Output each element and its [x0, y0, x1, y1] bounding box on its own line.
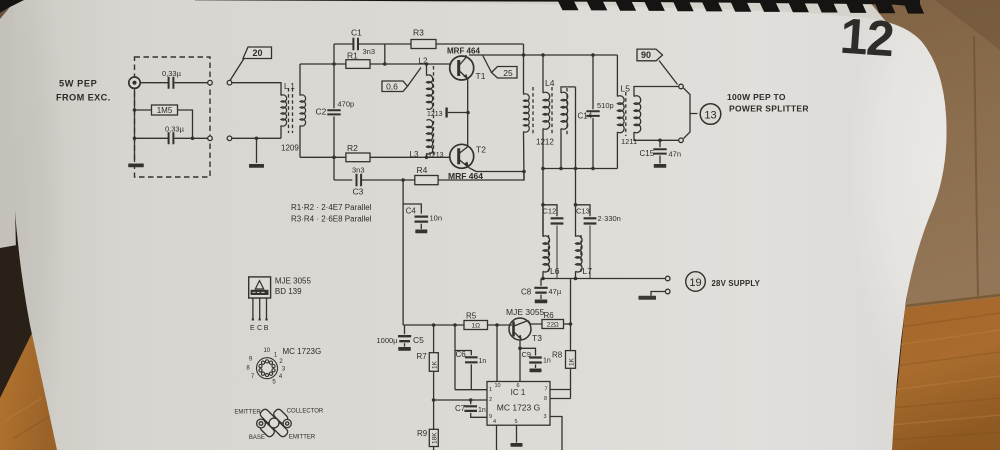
svg-text:1n: 1n	[543, 358, 551, 365]
wire C-0.33u to terminal	[175, 82, 208, 84]
wire to resistor 1M5	[135, 109, 153, 111]
svg-text:R4: R4	[417, 165, 428, 175]
wire L3 bottom lead	[426, 153, 428, 157]
wire tag25 pointer	[483, 55, 492, 73]
svg-text:90: 90	[641, 50, 651, 60]
svg-text:1213: 1213	[428, 152, 444, 159]
wire L1 secondary top to R1 rail	[299, 64, 301, 96]
package MJE3055/BD139 outline	[249, 277, 271, 321]
svg-text:L2: L2	[419, 57, 428, 66]
wire supply rail	[543, 278, 665, 280]
resistor R8	[570, 324, 572, 351]
svg-text:BASE: BASE	[249, 435, 265, 441]
wood floor right	[890, 297, 1000, 450]
svg-text:7: 7	[544, 387, 547, 393]
svg-text:1211: 1211	[621, 137, 637, 146]
svg-text:C5: C5	[413, 335, 424, 345]
resistor R4	[415, 176, 438, 185]
node C9	[518, 347, 522, 351]
left background strip	[0, 0, 16, 255]
furniture crease line	[974, 36, 978, 300]
wire supply to R6 column	[570, 279, 572, 325]
ground (L1)	[249, 164, 264, 168]
wire node to C-0.33u bottom	[135, 137, 169, 139]
svg-text:18K: 18K	[432, 432, 439, 444]
transformer L4 core	[533, 87, 552, 135]
svg-text:13: 13	[704, 109, 716, 121]
svg-text:COLLECTOR: COLLECTOR	[287, 409, 324, 415]
tag 90 flag	[637, 49, 663, 61]
svg-text:R9: R9	[417, 429, 428, 438]
svg-text:0,33µ: 0,33µ	[162, 69, 182, 78]
svg-text:EMITTER: EMITTER	[289, 435, 316, 441]
wood floor bottom-left	[0, 331, 58, 450]
node 1M5/lower rail	[191, 137, 195, 141]
right furniture background	[868, 0, 1000, 309]
inductor L3	[427, 120, 433, 154]
svg-text:T2: T2	[476, 145, 486, 155]
page right edge highlight	[845, 0, 1000, 425]
wire tag90 pointer	[659, 61, 678, 85]
svg-text:C3: C3	[353, 187, 364, 197]
wire R1 rail left	[300, 63, 346, 65]
svg-text:9: 9	[489, 414, 492, 420]
node T1 collector / feedback	[522, 53, 526, 57]
svg-text:510p: 510p	[597, 101, 614, 110]
svg-text:POWER SPLITTER: POWER SPLITTER	[729, 104, 809, 114]
output terminal (top)	[679, 84, 684, 89]
svg-text:L6: L6	[550, 266, 560, 276]
svg-text:0,6: 0,6	[386, 81, 398, 91]
dashed shield box around input network	[135, 57, 211, 177]
svg-text:3: 3	[543, 414, 546, 420]
wire T1 emitter to T2 collector	[467, 79, 469, 147]
tag 25 flag	[492, 67, 518, 79]
wire supply return	[651, 292, 665, 296]
wire T1 collector rail	[469, 54, 617, 56]
svg-text:2·330n: 2·330n	[598, 214, 621, 223]
wire tap to T1/T2 junction	[448, 112, 468, 114]
backing behind binder teeth	[0, 0, 1000, 40]
svg-text:R1·R2 · 2·4E7 Parallel: R1·R2 · 2·4E7 Parallel	[291, 203, 372, 212]
wire R2 rail down to C3 rail	[333, 157, 335, 180]
IC U1 MC1723G box	[487, 382, 550, 426]
supply terminal (return)	[665, 289, 670, 294]
svg-text:3n3: 3n3	[363, 47, 376, 56]
node rail/C14	[591, 53, 595, 57]
package MC1723G pinout circle	[257, 358, 278, 379]
wire C4 to ground	[420, 224, 422, 229]
wire R2 rail left	[300, 156, 346, 158]
wire R1 rail to T1 base	[370, 63, 450, 65]
svg-text:MRF 464: MRF 464	[448, 171, 483, 181]
svg-text:1K: 1K	[569, 357, 576, 366]
node C12	[541, 203, 545, 207]
output terminal (bottom)	[679, 138, 684, 143]
terminal on shield box (bottom)	[208, 136, 213, 141]
wire R6 to column	[564, 323, 571, 325]
wire pin3	[550, 417, 562, 450]
svg-text:10: 10	[263, 348, 270, 354]
svg-text:1212: 1212	[536, 138, 554, 147]
svg-text:EMITTER: EMITTER	[234, 410, 261, 416]
wire top rail to C1	[334, 43, 353, 45]
node L6/rail	[541, 277, 545, 281]
node C2 bottom	[332, 156, 336, 160]
capacitor C8	[540, 279, 542, 286]
svg-text:C6: C6	[456, 350, 467, 359]
svg-text:20: 20	[252, 48, 262, 58]
circle 13	[700, 104, 721, 125]
node C13	[574, 203, 578, 207]
svg-text:47µ: 47µ	[549, 287, 562, 296]
svg-text:C: C	[257, 325, 262, 332]
svg-text:MC 1723 G: MC 1723 G	[497, 403, 540, 413]
transformer L1 secondary winding	[300, 95, 306, 126]
svg-text:C8: C8	[521, 288, 532, 297]
svg-text:L 1: L 1	[284, 82, 295, 91]
node L7/rail	[574, 277, 578, 281]
transistor T1 MRF464	[450, 55, 474, 80]
node input/1M5	[133, 108, 137, 112]
svg-text:1213: 1213	[427, 111, 443, 118]
ground (C15)	[654, 164, 667, 168]
svg-text:25: 25	[503, 68, 513, 78]
svg-text:10: 10	[495, 383, 501, 389]
wire pin7	[550, 389, 571, 391]
dark object bottom-left	[0, 245, 33, 400]
wire R3 to collector column	[436, 43, 524, 45]
svg-text:8: 8	[544, 396, 547, 402]
capacitor C14	[592, 55, 594, 109]
wire rail B	[543, 168, 617, 170]
wire main vertical below R4 rail	[402, 180, 404, 325]
terminal on shield box (top)	[208, 80, 213, 85]
ground (C5)	[398, 347, 411, 351]
svg-text:5W PEP: 5W PEP	[59, 79, 97, 89]
resistor R6	[542, 320, 564, 329]
svg-text:C1: C1	[351, 28, 362, 38]
svg-text:C12: C12	[543, 207, 557, 216]
wire L4 w1 bottom to emitter rail	[523, 132, 526, 181]
tap bar	[445, 108, 447, 118]
output bracket to 13	[684, 88, 698, 139]
node C2 top	[332, 62, 336, 66]
svg-text:2: 2	[489, 397, 492, 403]
transformer L5 secondary	[634, 96, 641, 133]
svg-text:0,33µ: 0,33µ	[165, 125, 185, 134]
wire tag0,6 pointer	[408, 68, 422, 87]
wire C3 rail left	[334, 179, 352, 181]
supply return end bar (ground)	[639, 296, 657, 300]
transformer L1 primary winding	[281, 95, 287, 126]
wire pin2 line	[434, 399, 487, 401]
wire C1 to R3	[359, 43, 411, 45]
node rail/L4w2	[541, 53, 545, 57]
svg-text:L4: L4	[545, 78, 555, 88]
svg-text:L5: L5	[621, 84, 631, 94]
wire to terminal bottom	[175, 137, 208, 139]
wire C2 bottom lead	[333, 116, 335, 157]
node C6/rail	[453, 323, 457, 327]
svg-text:MJE 3055: MJE 3055	[275, 277, 312, 286]
choke L7	[575, 87, 577, 237]
capacitor C5 1000u	[404, 325, 406, 334]
svg-text:B: B	[264, 325, 269, 332]
choke L6	[542, 205, 544, 237]
capacitor 0.33u (top)	[169, 77, 174, 89]
svg-text:1000µ: 1000µ	[376, 336, 398, 345]
wire pin1	[455, 389, 487, 391]
svg-text:5: 5	[515, 419, 518, 425]
svg-text:R3: R3	[413, 28, 424, 38]
wire R7 to R9	[433, 371, 435, 429]
svg-text:1K: 1K	[432, 360, 439, 369]
capacitor 0.33u (bottom)	[169, 132, 174, 144]
ground (pin5)	[511, 443, 523, 447]
terminal L1 input (top)	[227, 80, 232, 85]
svg-text:1M5: 1M5	[157, 106, 173, 115]
svg-text:470p: 470p	[338, 100, 355, 109]
wire pin5	[516, 425, 518, 442]
wire L1 secondary bottom to R2 rail	[299, 126, 301, 158]
node C4 top	[401, 178, 405, 182]
transformer L4 winding 1	[524, 94, 530, 132]
node L3 bottom	[425, 156, 429, 160]
wire feedback drop	[384, 44, 386, 64]
wire pin4	[496, 425, 498, 450]
svg-text:R7: R7	[417, 352, 428, 361]
wire R2 rail to T2 base	[370, 156, 450, 158]
wire R4 to T2 emitter jog	[438, 172, 524, 181]
ground (C8)	[535, 300, 548, 304]
transistor T2 MRF464	[450, 144, 476, 171]
svg-text:C2: C2	[316, 107, 327, 117]
capacitor C1	[353, 38, 358, 50]
circle 19	[686, 272, 706, 292]
svg-text:C13: C13	[576, 207, 590, 216]
svg-text:BD 139: BD 139	[275, 287, 302, 296]
wire L1 ground stub	[256, 138, 258, 163]
binder corner wedge top-left	[0, 0, 24, 13]
svg-text:1n: 1n	[478, 407, 486, 414]
node C15	[658, 139, 662, 143]
transformer L1 core	[289, 88, 293, 133]
wire R5 rail	[403, 324, 464, 326]
node R6/R8	[569, 322, 573, 326]
node railB/L7col	[574, 167, 578, 171]
wire C2 top lead	[333, 64, 335, 108]
transformer L4 core w3	[566, 88, 568, 135]
wire terminal to L1 primary bottom	[232, 137, 281, 139]
svg-text:C15: C15	[640, 149, 655, 158]
wire pin8	[550, 398, 571, 400]
capacitor C4	[415, 217, 429, 222]
ground (input)	[128, 164, 144, 168]
node L2 top	[425, 62, 429, 66]
resistor R3	[411, 40, 436, 49]
node railB/C14	[591, 167, 595, 171]
svg-text:12: 12	[838, 8, 894, 68]
svg-text:C14: C14	[578, 112, 593, 121]
svg-text:T1: T1	[476, 71, 486, 81]
transformer L5 core	[625, 92, 627, 136]
wire 1M5 to lower rail	[177, 110, 193, 138]
svg-text:1Ω: 1Ω	[472, 322, 481, 329]
svg-text:3n3: 3n3	[352, 166, 365, 175]
svg-text:R5: R5	[466, 312, 477, 321]
wire terminal to L1 primary top	[232, 83, 281, 96]
IC pin numbers	[489, 383, 548, 425]
node R7/R9/pin2	[432, 398, 436, 402]
wire pin7-8 jumper	[570, 390, 572, 399]
resistor R2	[346, 153, 370, 162]
capacitor C7	[470, 400, 472, 404]
node interstage tap	[466, 111, 470, 115]
input coax connector	[129, 77, 140, 88]
wire top rail corner into L4	[523, 44, 525, 95]
svg-text:19: 19	[689, 277, 701, 289]
transformer L2/L3 core	[433, 66, 435, 157]
wire T3 emitter down to IC pin6	[519, 340, 521, 382]
svg-text:47n: 47n	[669, 150, 682, 159]
svg-text:E: E	[250, 325, 255, 332]
wire input vertical	[134, 88, 136, 162]
resistor R9	[429, 429, 438, 446]
svg-text:L7: L7	[583, 266, 593, 276]
svg-text:1n: 1n	[479, 358, 487, 365]
wire tag20 pointer	[230, 59, 244, 81]
terminal L1 input (bottom)	[227, 136, 232, 141]
wire connector to C-0.33u top	[140, 82, 168, 84]
svg-text:10n: 10n	[430, 214, 443, 223]
tag 20 flag	[243, 47, 272, 59]
node feedback/base T1	[383, 62, 387, 66]
svg-text:1: 1	[489, 387, 492, 393]
svg-text:MJE 3055: MJE 3055	[506, 307, 545, 317]
resistor R1	[346, 60, 370, 69]
wire C3 to R4	[362, 179, 415, 181]
svg-text:R6: R6	[544, 311, 555, 320]
wire L1 primary bottom	[280, 126, 282, 139]
svg-text:C4: C4	[406, 207, 417, 216]
node R7 top	[432, 323, 436, 327]
node input/lower cap	[133, 137, 137, 141]
resistor 1M5	[152, 105, 178, 115]
node railB/L4w2	[541, 167, 545, 171]
svg-text:4: 4	[493, 419, 496, 425]
svg-text:1209: 1209	[281, 144, 299, 153]
wire C4 branch	[403, 204, 421, 214]
svg-text:IC 1: IC 1	[511, 388, 526, 397]
node L1 ground stub	[255, 137, 259, 141]
tag 0,6 flag	[382, 81, 408, 92]
resistor R5	[464, 321, 488, 330]
wire T2 emitter line	[476, 171, 524, 173]
svg-text:6: 6	[517, 383, 520, 389]
svg-text:100W PEP TO: 100W PEP TO	[727, 92, 786, 102]
svg-text:MRF 464: MRF 464	[447, 47, 480, 56]
capacitor C6	[454, 325, 456, 390]
ground (C9)	[530, 369, 542, 373]
wire L2 top lead	[426, 64, 428, 76]
wire R5 to T3 base	[488, 324, 513, 326]
svg-text:22Ω: 22Ω	[547, 321, 559, 328]
svg-text:R8: R8	[552, 351, 563, 360]
transistor T3 MJE3055	[509, 318, 542, 340]
svg-text:R1: R1	[347, 51, 358, 61]
node C7	[469, 398, 473, 402]
svg-text:R2: R2	[347, 143, 358, 153]
svg-text:T3: T3	[532, 333, 542, 343]
wire top rail left drop	[333, 44, 335, 64]
ground (C4)	[415, 230, 427, 234]
supply terminal (plus)	[665, 276, 670, 281]
capacitor C3	[357, 174, 362, 186]
svg-text:L3: L3	[410, 150, 419, 159]
svg-text:MC 1723G: MC 1723G	[283, 347, 322, 356]
svg-text:28V SUPPLY: 28V SUPPLY	[712, 279, 761, 288]
transformer L4 winding 3	[561, 92, 568, 129]
svg-text:C7: C7	[455, 404, 466, 413]
node pin10	[495, 323, 499, 327]
svg-text:C9: C9	[522, 350, 532, 359]
inductor L2	[427, 75, 433, 109]
node T2 emitter / L4	[522, 170, 526, 174]
svg-text:FROM EXC.: FROM EXC.	[56, 93, 111, 103]
node railB/L4w3	[559, 167, 563, 171]
wire pin10	[496, 325, 498, 382]
transformer L4 winding 2	[542, 55, 544, 93]
package TO-3 bottom view	[257, 408, 292, 438]
svg-text:R3·R4 · 2·6E8 Parallel: R3·R4 · 2·6E8 Parallel	[291, 215, 372, 224]
page left edge shading	[0, 0, 67, 450]
binder teeth	[558, 1, 924, 13]
binder black band	[195, 0, 920, 7]
transformer L5 primary	[616, 55, 618, 97]
